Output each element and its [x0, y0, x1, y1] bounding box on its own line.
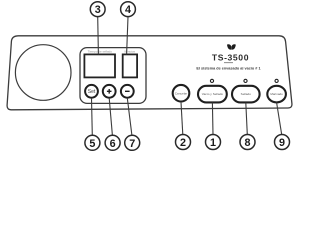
button Set [85, 85, 98, 98]
svg-text:Tiempo de sellado: Tiempo de sellado [88, 50, 113, 54]
leader line callout 5 [91, 98, 94, 135]
svg-text:TS-3500: TS-3500 [212, 52, 249, 62]
callout circle 1 [206, 135, 221, 150]
leader line callout 8 [246, 103, 248, 135]
leader line callout 6 [109, 98, 112, 135]
brand logo (two leaves) [227, 44, 231, 49]
button Vacio y Sellado [198, 86, 227, 103]
svg-text:8: 8 [244, 137, 250, 149]
svg-text:4: 4 [125, 4, 131, 16]
svg-text:Cancelar: Cancelar [175, 91, 187, 95]
callout circle 6 [105, 135, 120, 150]
svg-text:1: 1 [210, 137, 216, 149]
svg-text:Set: Set [88, 89, 96, 95]
leader line callout 1 [211, 103, 214, 135]
leader line callout 3 [97, 17, 100, 55]
small display window [123, 54, 137, 77]
device body (vacuum sealer top panel) [7, 36, 292, 110]
callout circle 2 [176, 135, 191, 150]
LED above vacuum-seal button [210, 79, 213, 82]
svg-text:7: 7 [129, 138, 135, 150]
button plus [103, 85, 116, 98]
button Sellado [232, 86, 260, 103]
divider dash under title [224, 62, 233, 64]
callout circle 5 [85, 135, 100, 150]
large display window [84, 54, 115, 77]
callout circle 3 [90, 2, 105, 17]
callout circle 4 [121, 2, 136, 17]
leader line callout 4 [127, 17, 128, 55]
LED above marinate button [275, 79, 278, 82]
leader line callout 9 [277, 103, 282, 135]
svg-text:6: 6 [110, 138, 116, 150]
svg-text:Marinado: Marinado [270, 92, 283, 96]
LED above seal button [244, 79, 247, 82]
button minus [121, 85, 134, 98]
callout circle 9 [275, 135, 290, 150]
button Cancelar [173, 85, 190, 102]
svg-text:5: 5 [89, 138, 95, 150]
svg-text:2: 2 [180, 137, 186, 149]
svg-text:9: 9 [279, 137, 285, 149]
svg-text:Sellado: Sellado [241, 92, 252, 96]
leader line callout 2 [181, 102, 183, 135]
svg-text:Vacío y Sellado: Vacío y Sellado [202, 92, 224, 96]
svg-text:El sistema de envasado al vací: El sistema de envasado al vacío # 1 [196, 66, 260, 70]
control panel outline [80, 48, 146, 104]
button Marinado [267, 86, 286, 103]
svg-text:3: 3 [95, 4, 101, 16]
lid circle [15, 45, 71, 101]
callout circle 7 [125, 135, 140, 150]
leader line callout 7 [127, 98, 132, 135]
callout circle 8 [240, 135, 255, 150]
